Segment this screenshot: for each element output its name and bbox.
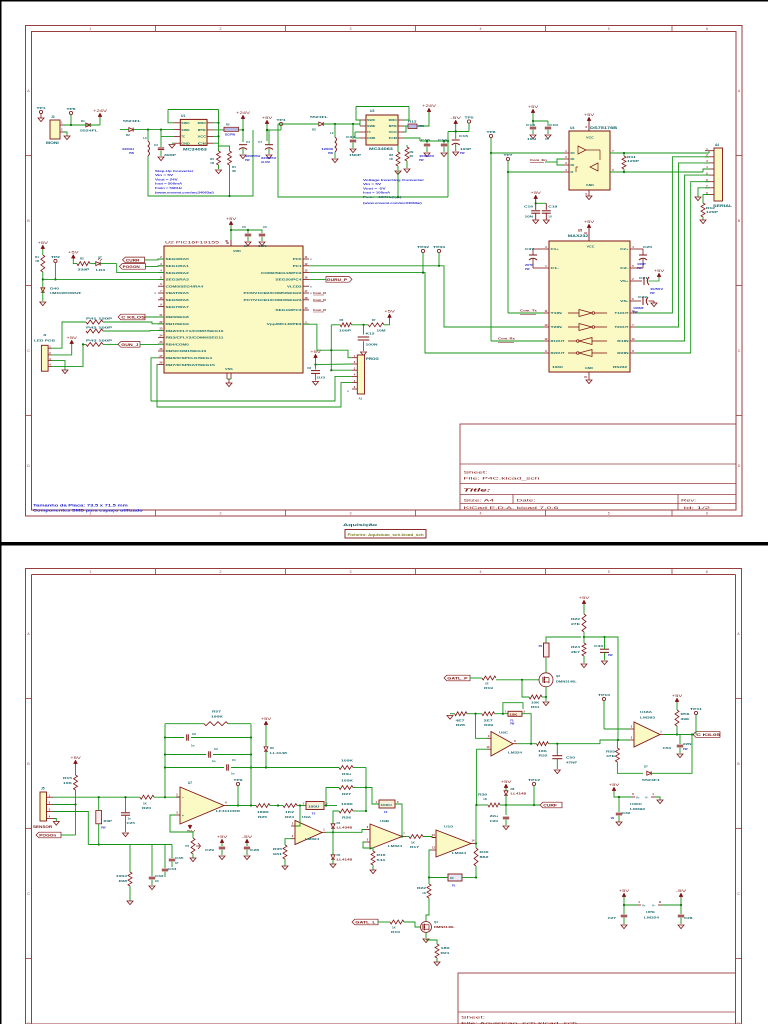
line — [649, 300, 655, 302]
ground — [62, 370, 68, 374]
svg-text:GATL_L: GATL_L — [355, 920, 375, 924]
IC U1 MC34063 — [180, 119, 207, 145]
wire — [103, 330, 164, 332]
svg-text:+5V: +5V — [384, 310, 396, 314]
svg-text:LM393: LM393 — [640, 716, 656, 720]
line — [207, 135, 213, 137]
svg-text:P3: P3 — [185, 844, 189, 848]
wire — [436, 958, 438, 962]
ground — [677, 754, 683, 758]
svg-text:A4: A4 — [715, 143, 719, 147]
line — [588, 122, 590, 132]
svg-text:+5V: +5V — [584, 113, 596, 117]
line — [543, 312, 549, 314]
svg-text:VCC: VCC — [389, 130, 397, 134]
svg-text:D: D — [738, 464, 741, 468]
capacitor — [530, 126, 536, 128]
line — [535, 203, 537, 210]
svg-text:1K2: 1K2 — [285, 810, 295, 814]
svg-text:VS+: VS+ — [620, 279, 629, 283]
svg-text:R3P: R3P — [104, 819, 113, 823]
wire — [213, 129, 224, 131]
svg-text:+24V: +24V — [422, 104, 437, 108]
line — [239, 144, 247, 146]
line — [174, 142, 180, 144]
wire — [395, 804, 402, 837]
capacitor — [677, 744, 683, 746]
line — [458, 1011, 736, 1013]
wire — [352, 143, 354, 148]
test point TP4 — [279, 122, 282, 125]
line — [543, 326, 549, 328]
line — [226, 373, 228, 379]
wire — [703, 195, 709, 203]
wire — [228, 723, 251, 725]
svg-text:MONI: MONI — [46, 141, 59, 145]
ground — [370, 870, 376, 874]
wire — [491, 152, 563, 154]
junction — [502, 713, 504, 715]
svg-text:Fmin = 50KHz: Fmin = 50KHz — [155, 186, 183, 190]
resistor R2 339R — [77, 262, 90, 266]
wire — [250, 724, 252, 806]
wire — [507, 172, 509, 313]
line — [158, 285, 164, 287]
wire — [145, 258, 165, 261]
svg-text:U2 PIC16F19155: U2 PIC16F19155 — [165, 241, 219, 245]
svg-text:R38: R38 — [119, 879, 128, 883]
wire — [384, 318, 390, 324]
svg-text:C32: C32 — [622, 811, 631, 815]
junction — [623, 171, 625, 173]
junction — [426, 140, 428, 142]
box — [544, 643, 550, 657]
wire — [170, 815, 193, 838]
wire — [676, 703, 678, 711]
resistor — [339, 766, 353, 770]
capacitor — [542, 210, 551, 212]
capacitor — [169, 858, 175, 860]
line — [575, 167, 577, 172]
wire — [75, 790, 77, 805]
diode D5 5524FL — [319, 122, 323, 126]
svg-text:DMN3140L: DMN3140L — [556, 680, 577, 684]
svg-text:4: 4 — [480, 512, 482, 516]
svg-text:Rev:: Rev: — [681, 499, 696, 503]
svg-text:T1IN: T1IN — [551, 311, 562, 315]
svg-text:D7: D7 — [644, 765, 648, 769]
diode — [331, 824, 335, 828]
line — [303, 265, 309, 267]
junction — [98, 796, 100, 798]
wire — [428, 878, 430, 885]
test point TP2 — [54, 259, 57, 262]
line — [535, 213, 537, 219]
transistor Q2 DMN3140L — [539, 673, 553, 687]
line — [468, 123, 470, 131]
line — [207, 129, 213, 131]
junction — [266, 129, 268, 131]
line — [460, 503, 736, 505]
line — [158, 350, 164, 352]
box — [345, 530, 426, 539]
svg-text:TP6: TP6 — [67, 107, 77, 111]
junction — [623, 152, 625, 154]
wire — [125, 815, 127, 832]
svg-text:C KIL05: C KIL05 — [696, 733, 720, 737]
wire — [330, 325, 332, 370]
svg-text:+5V: +5V — [584, 220, 596, 224]
wire — [278, 124, 448, 197]
resistor — [427, 884, 431, 898]
IC U3 MC34063 — [366, 115, 398, 145]
wire — [334, 152, 336, 158]
LED LD3 — [96, 262, 100, 266]
svg-text:PW: PW — [683, 747, 688, 751]
svg-text:1U3: 1U3 — [317, 376, 326, 380]
svg-text:TP9: TP9 — [234, 778, 244, 782]
wire — [623, 153, 625, 156]
wire — [356, 106, 409, 108]
svg-text:C20: C20 — [643, 245, 653, 249]
svg-text:GND: GND — [585, 366, 593, 370]
wire — [172, 142, 174, 144]
wire — [332, 820, 334, 824]
svg-text:+5V: +5V — [501, 780, 513, 784]
wire — [42, 292, 44, 301]
ground — [657, 800, 663, 804]
svg-text:C1: C1 — [232, 758, 236, 762]
wire — [490, 153, 492, 341]
junction — [603, 636, 605, 638]
test point TP9 — [236, 782, 239, 785]
svg-text:6: 6 — [706, 27, 708, 31]
line — [237, 786, 239, 806]
line — [158, 272, 164, 274]
wire — [164, 872, 166, 877]
svg-text:SEG3/RA3: SEG3/RA3 — [166, 278, 190, 282]
svg-text:SWC: SWC — [181, 121, 189, 125]
wire — [536, 202, 547, 204]
line — [158, 336, 164, 338]
svg-text:C25: C25 — [127, 821, 136, 825]
wire — [326, 788, 339, 806]
wire — [323, 123, 360, 125]
svg-text:C33: C33 — [155, 874, 164, 878]
wire — [443, 147, 445, 152]
wire — [583, 637, 585, 643]
line — [291, 825, 295, 827]
wire — [583, 605, 585, 615]
junction — [250, 753, 252, 755]
resistor — [482, 676, 496, 680]
wire — [231, 229, 248, 231]
ground — [533, 220, 539, 224]
line — [651, 796, 655, 798]
line — [176, 796, 180, 798]
svg-text:1U: 1U — [548, 215, 552, 219]
svg-text:C50: C50 — [566, 756, 576, 760]
line — [642, 259, 644, 268]
wire — [467, 713, 482, 715]
line — [568, 340, 577, 342]
svg-text:LM393: LM393 — [630, 807, 646, 811]
svg-text:R35: R35 — [273, 847, 283, 851]
junction — [265, 766, 267, 768]
power flag +24V — [99, 114, 101, 118]
wire — [495, 713, 509, 715]
svg-text:2: 2 — [220, 512, 222, 516]
wire — [145, 316, 164, 318]
svg-text:R13: R13 — [408, 120, 417, 124]
svg-text:SEG20/PC4: SEG20/PC4 — [275, 278, 302, 282]
junction — [680, 904, 682, 906]
svg-text:U10: U10 — [444, 825, 454, 829]
line — [398, 137, 404, 139]
svg-text:KiCad E.D.A. kicad 7.0.6: KiCad E.D.A. kicad 7.0.6 — [464, 506, 559, 510]
svg-text:100K: 100K — [341, 759, 354, 763]
line — [196, 845, 201, 847]
svg-text:Aquisição: Aquisição — [343, 523, 378, 527]
resistor P41 150R — [86, 320, 103, 324]
wire — [450, 713, 455, 715]
line — [352, 382, 357, 384]
svg-text:SEG7/RA7: SEG7/RA7 — [166, 305, 190, 309]
ground — [586, 380, 592, 384]
line — [313, 301, 324, 303]
op-amp U7 LF411CDR — [180, 787, 224, 824]
wire — [297, 805, 306, 807]
svg-text:RS232: RS232 — [613, 365, 628, 369]
wire — [242, 120, 244, 143]
wire — [246, 844, 248, 847]
line — [70, 115, 72, 125]
wire — [617, 762, 643, 773]
wire — [125, 797, 127, 813]
wire — [334, 123, 336, 125]
wire — [267, 130, 269, 141]
wire — [98, 824, 100, 845]
line — [174, 122, 180, 124]
wire — [476, 714, 488, 739]
svg-text:File: Aquisicao_sch.kicad_sch: File: Aquisicao_sch.kicad_sch — [461, 1021, 577, 1024]
wire — [508, 171, 563, 173]
svg-text:RB7/ICSPDAT/SEG15: RB7/ICSPDAT/SEG15 — [166, 363, 216, 367]
svg-text:T2OUT: T2OUT — [615, 325, 629, 329]
power flag +5V — [676, 699, 678, 703]
line — [352, 375, 357, 377]
svg-text:Tamanho da Placa: 73.5 x 71.5: Tamanho da Placa: 73.5 x 71.5 mm — [33, 504, 129, 508]
svg-text:CURR: CURR — [126, 258, 140, 262]
wire — [332, 859, 334, 864]
svg-text:T1OUT: T1OUT — [615, 311, 629, 315]
junction — [242, 129, 244, 131]
line — [158, 364, 164, 366]
wire — [315, 365, 317, 370]
line — [705, 194, 714, 196]
test point TP8 — [489, 134, 492, 137]
line — [636, 300, 641, 302]
wire — [331, 369, 352, 371]
line — [639, 254, 647, 256]
junction — [447, 140, 449, 142]
wire — [331, 324, 340, 326]
resistor R7 10M — [368, 323, 384, 327]
line — [588, 372, 590, 380]
power flag +5V — [71, 341, 73, 345]
wire — [171, 845, 173, 859]
line — [402, 836, 406, 838]
wire — [604, 637, 606, 649]
line — [224, 805, 228, 807]
svg-text:U3: U3 — [370, 109, 374, 113]
junction — [250, 766, 252, 768]
ground — [64, 136, 70, 140]
svg-text:C: C — [738, 349, 741, 353]
wire — [230, 226, 232, 241]
wire — [548, 740, 618, 744]
resistor — [191, 838, 195, 854]
svg-text:100U: 100U — [308, 805, 319, 809]
svg-text:TP7: TP7 — [504, 153, 514, 157]
wire — [248, 230, 262, 233]
svg-text:K12: K12 — [366, 332, 376, 336]
svg-text:+5V: +5V — [310, 350, 322, 354]
svg-text:SERIAL: SERIAL — [713, 204, 732, 208]
line — [352, 388, 357, 390]
wire — [52, 361, 65, 370]
wire — [100, 263, 117, 265]
svg-text:Sheet:: Sheet: — [464, 470, 488, 475]
wire — [491, 340, 543, 342]
svg-text:120P: 120P — [706, 210, 718, 214]
line — [487, 748, 491, 750]
junction — [428, 876, 430, 878]
wire — [303, 324, 331, 350]
svg-text:R5: R5 — [226, 122, 230, 126]
svg-text:1: 1 — [90, 27, 92, 31]
svg-text:R22: R22 — [417, 886, 427, 890]
svg-text:U9C: U9C — [499, 731, 509, 735]
wire — [154, 796, 180, 798]
junction — [676, 733, 678, 735]
power flag +5V — [505, 785, 507, 789]
svg-text:-5V: -5V — [676, 889, 688, 893]
wire — [557, 159, 563, 165]
line — [303, 285, 309, 287]
svg-text:CURF: CURF — [543, 803, 557, 807]
power flag +5V — [535, 196, 537, 200]
wire — [583, 632, 585, 637]
line — [705, 174, 714, 176]
svg-text:100N: 100N — [366, 343, 378, 347]
wire — [52, 322, 86, 348]
line — [630, 312, 636, 314]
capacitor — [545, 126, 551, 128]
wire — [448, 131, 469, 133]
line — [659, 734, 663, 736]
connector J9 LED PGB — [41, 345, 48, 371]
line — [158, 306, 164, 308]
svg-text:Title:: Title: — [463, 488, 492, 493]
line — [471, 843, 476, 845]
wire — [285, 839, 291, 845]
wire — [404, 126, 406, 132]
power flag +5V — [265, 722, 267, 726]
line — [360, 137, 366, 139]
line — [643, 277, 645, 285]
resistor — [582, 643, 586, 656]
svg-text:C1-: C1- — [551, 266, 560, 270]
svg-text:GND: GND — [367, 136, 375, 140]
line — [360, 125, 366, 127]
junction — [475, 804, 477, 806]
svg-text:J9: J9 — [43, 333, 47, 337]
line — [460, 483, 736, 485]
svg-text:C: C — [27, 892, 30, 896]
wire — [309, 266, 543, 327]
line — [568, 326, 579, 328]
ground — [543, 702, 549, 706]
wire — [662, 898, 681, 906]
line — [631, 796, 635, 798]
svg-text:GND: GND — [181, 141, 189, 145]
capacitor — [186, 734, 188, 740]
junction — [505, 804, 507, 806]
resistor — [409, 835, 423, 839]
svg-text:5524FL: 5524FL — [310, 115, 328, 119]
ground — [190, 858, 196, 862]
connector A4 SERIAL — [714, 148, 723, 201]
wire — [268, 141, 270, 145]
wire — [315, 373, 317, 380]
svg-text:C: C — [737, 892, 740, 896]
svg-text:R2IN: R2IN — [617, 351, 628, 355]
junction — [443, 140, 445, 142]
resistor R12 120R — [701, 203, 705, 217]
junction — [147, 129, 149, 131]
wire — [698, 188, 709, 197]
wire — [663, 734, 694, 736]
wire — [636, 157, 709, 313]
svg-text:+5V: +5V — [528, 105, 540, 109]
line — [530, 162, 544, 164]
svg-text:LM324: LM324 — [452, 851, 467, 855]
junction — [330, 349, 332, 351]
line — [228, 243, 231, 246]
wire — [397, 166, 399, 170]
power flag +5V — [75, 761, 77, 765]
ground — [441, 153, 447, 157]
wire — [218, 143, 220, 151]
wire — [417, 112, 429, 126]
wire — [547, 130, 549, 134]
net label GUN_J — [118, 342, 140, 348]
ground — [695, 197, 701, 201]
svg-text:V+: V+ — [642, 904, 646, 908]
wire — [680, 905, 682, 914]
ground — [40, 302, 46, 306]
power flag +24V — [428, 109, 430, 113]
wire — [610, 171, 703, 173]
wire — [475, 805, 477, 844]
wire — [103, 343, 118, 345]
svg-text:3: 3 — [350, 27, 352, 31]
line — [303, 323, 309, 325]
junction — [691, 733, 693, 735]
capacitor — [208, 751, 210, 757]
svg-text:P6: P6 — [539, 644, 543, 648]
